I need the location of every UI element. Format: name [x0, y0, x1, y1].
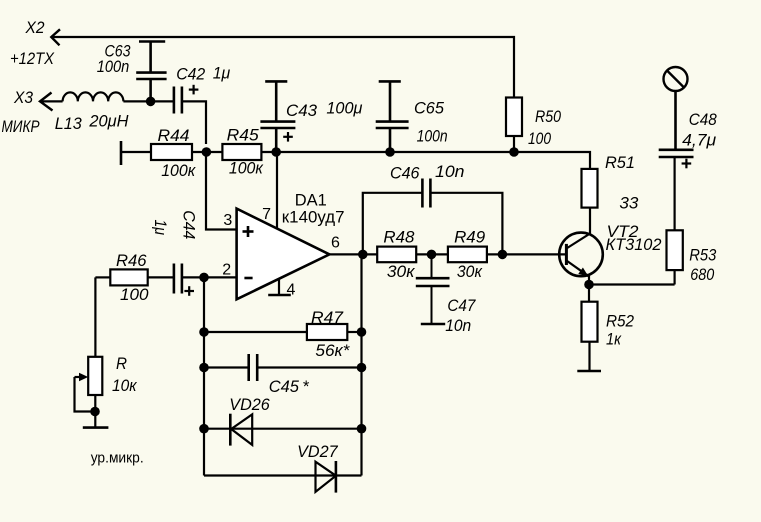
node VD26 left: [199, 424, 209, 434]
svg-text:R53: R53: [689, 245, 716, 264]
node op-amp output: [358, 250, 368, 260]
svg-text:VD26: VD26: [229, 395, 270, 414]
wire pin 3: [206, 152, 237, 230]
svg-text:DA1: DA1: [295, 190, 327, 209]
svg-text:100: 100: [120, 285, 149, 304]
svg-text:1μ: 1μ: [151, 220, 170, 236]
svg-text:100к: 100к: [229, 159, 264, 178]
plus C44: [184, 286, 194, 296]
transistor VT2: [559, 208, 603, 285]
svg-text:ур.микр.: ур.микр.: [91, 450, 144, 467]
capacitor C65: [376, 81, 409, 152]
wire main rail: [261, 152, 590, 169]
wire R44-R45: [192, 151, 222, 153]
svg-text:33: 33: [619, 194, 639, 213]
svg-text:10к: 10к: [112, 376, 137, 395]
svg-text:1μ: 1μ: [213, 64, 231, 83]
node C44/pin2/bus: [199, 273, 209, 283]
wire C44 to pin 2: [182, 276, 237, 278]
plus C43: [283, 132, 293, 142]
node VD26 right: [357, 424, 367, 434]
node R47 right: [357, 327, 367, 337]
node VT2 emitter: [584, 280, 594, 290]
node R47 left: [199, 327, 209, 337]
svg-text:C45 *: C45 *: [269, 377, 310, 396]
diode VD26: [204, 414, 362, 446]
svg-text:100μ: 100μ: [326, 98, 363, 117]
capacitor C63: [136, 42, 166, 102]
wire L13 to node A: [123, 100, 173, 102]
capacitor C47: [416, 254, 450, 324]
connector X2 arrow: [51, 29, 60, 45]
inductor L13: [63, 92, 124, 101]
wire pin 7: [276, 152, 278, 229]
svg-text:30к: 30к: [457, 262, 483, 281]
svg-text:C44: C44: [180, 210, 199, 239]
node R50/rail: [509, 147, 519, 157]
resistor R45: [222, 144, 261, 160]
resistor R53: [667, 157, 683, 285]
svg-text:R51: R51: [605, 153, 635, 172]
node pot bottom: [90, 407, 100, 417]
node R48/R49/C47: [427, 250, 437, 260]
svg-text:+12TX: +12TX: [10, 49, 55, 68]
resistor R51: [582, 169, 598, 208]
svg-text:3: 3: [223, 212, 232, 229]
node L13/C63/C42: [146, 97, 156, 107]
svg-text:1к: 1к: [606, 330, 622, 349]
node R49/C46: [498, 250, 508, 260]
svg-text:4: 4: [287, 282, 296, 299]
svg-text:КТ3102: КТ3102: [606, 235, 663, 254]
resistor R52: [577, 285, 601, 372]
svg-text:R48: R48: [383, 228, 415, 247]
node C45 left: [199, 363, 209, 373]
svg-text:4,7μ: 4,7μ: [682, 131, 717, 150]
svg-text:100: 100: [528, 129, 551, 148]
svg-text:20μН: 20μН: [88, 111, 129, 130]
svg-text:C43: C43: [286, 101, 318, 120]
resistor R48: [377, 247, 416, 263]
resistor R50: [506, 98, 522, 153]
svg-text:C47: C47: [447, 296, 475, 315]
svg-text:C65: C65: [414, 98, 445, 117]
svg-text:10n: 10n: [445, 316, 471, 335]
wire bottom run (VD27): [204, 474, 362, 476]
connector X3 arrow: [40, 93, 53, 111]
node C65/rail: [385, 147, 395, 157]
op-amp DA1: [237, 209, 330, 300]
svg-text:30к: 30к: [387, 262, 415, 281]
svg-text:C46: C46: [390, 164, 420, 183]
wire R49 to VT2 base: [487, 253, 567, 255]
wire X3 to L13: [40, 100, 63, 102]
svg-text:к140уд7: к140уд7: [282, 208, 345, 227]
svg-text:R52: R52: [606, 312, 634, 331]
svg-text:2: 2: [222, 262, 231, 279]
ground pin 4: [268, 279, 291, 295]
svg-text:R50: R50: [535, 107, 561, 126]
resistor R49: [448, 247, 487, 263]
node dots: [90, 97, 594, 434]
node R45/C43/pin7: [271, 147, 281, 157]
svg-text:VD27: VD27: [297, 442, 338, 461]
plus C42: [189, 85, 199, 95]
svg-text:C48: C48: [689, 110, 717, 129]
capacitor C48: [659, 91, 694, 157]
capacitor C45: [204, 354, 362, 381]
svg-text:X3: X3: [13, 88, 33, 107]
svg-text:10n: 10n: [435, 162, 465, 181]
svg-text:56к*: 56к*: [315, 341, 350, 360]
node C45 right: [357, 363, 367, 373]
node R44/R45/pin3: [202, 147, 212, 157]
capacitor C43: [260, 81, 295, 152]
svg-text:R49: R49: [454, 228, 486, 247]
svg-text:6: 6: [331, 235, 340, 252]
svg-text:МИКР: МИКР: [2, 117, 41, 136]
capacitor C46 feedback loop: [363, 179, 503, 255]
svg-text:L13: L13: [55, 114, 83, 133]
wire R48-R49: [416, 253, 448, 255]
resistor R47: [204, 324, 362, 340]
wire C42 down to rail: [182, 101, 206, 144]
svg-text:R44: R44: [158, 126, 190, 145]
svg-text:R47: R47: [311, 308, 344, 327]
svg-text:R45: R45: [227, 125, 260, 144]
diode VD27: [316, 461, 336, 493]
svg-text:R46: R46: [116, 251, 147, 270]
svg-text:C42: C42: [176, 64, 206, 83]
wire emitter node to R53: [589, 283, 675, 285]
resistor R46: [95, 269, 173, 285]
svg-text:X2: X2: [25, 18, 45, 37]
svg-text:680: 680: [690, 265, 714, 284]
svg-text:7: 7: [262, 206, 271, 223]
wire right bus: [360, 254, 362, 475]
svg-text:100n: 100n: [97, 57, 130, 76]
resistor R44: [121, 141, 192, 165]
plus C48: [682, 159, 692, 169]
connector jack symbol: [664, 67, 688, 91]
svg-text:100n: 100n: [417, 127, 448, 146]
potentiometer R: [75, 277, 109, 427]
capacitor C44: [174, 264, 182, 294]
svg-text:100к: 100к: [161, 161, 196, 180]
svg-text:R: R: [116, 354, 127, 373]
wire op-amp output: [329, 253, 377, 255]
wire X2 top rail to R50: [51, 37, 514, 98]
wire left bus: [203, 277, 205, 475]
capacitor C42: [174, 87, 182, 114]
